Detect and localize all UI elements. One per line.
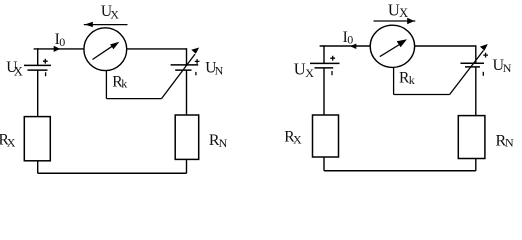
label RX (right circuit) bbox=[284, 128, 302, 146]
wire left vertical upper bbox=[37, 48, 39, 65]
label RN (right circuit) bbox=[496, 132, 515, 149]
svg-text:0: 0 bbox=[59, 35, 65, 49]
svg-text:k: k bbox=[121, 77, 127, 91]
wire right vertical lower bbox=[186, 70, 188, 115]
label UX (battery, left) bbox=[6, 59, 23, 79]
label UN (right circuit) bbox=[493, 57, 512, 75]
resistor RX2 bbox=[313, 115, 339, 157]
arrow UX direction (points left) bbox=[84, 22, 128, 27]
wire left vertical lower (right circuit) bbox=[323, 68, 325, 115]
svg-text:X: X bbox=[7, 135, 16, 149]
wire bottom rail bbox=[38, 172, 187, 174]
svg-text:X: X bbox=[14, 65, 23, 79]
svg-text:N: N bbox=[505, 135, 514, 149]
battery UN long plate bbox=[171, 64, 199, 66]
wire right vertical upper (right circuit) bbox=[475, 45, 477, 63]
battery UN2 minus tick bbox=[482, 72, 484, 76]
battery UX minus tick bbox=[45, 72, 47, 76]
wire bottom rail (right circuit) bbox=[324, 170, 476, 172]
battery UN2 short plate bbox=[465, 66, 480, 68]
svg-text:0: 0 bbox=[347, 33, 353, 47]
galvanometer G1 bbox=[84, 28, 127, 71]
label RN bbox=[209, 132, 228, 150]
battery UN2 long plate bbox=[461, 62, 485, 64]
svg-text:N: N bbox=[219, 136, 228, 150]
svg-text:N: N bbox=[215, 63, 224, 77]
svg-text:U: U bbox=[388, 1, 400, 20]
label UX (top, right circuit) bbox=[388, 1, 408, 20]
label I0 (right circuit) bbox=[343, 29, 354, 47]
galvanometer needle arrow bbox=[93, 42, 120, 60]
wire Rk horizontal (right circuit) bbox=[394, 94, 450, 96]
battery UX long plate + bbox=[24, 64, 51, 66]
label RX bbox=[0, 131, 16, 149]
wire left vertical upper (right circuit) bbox=[323, 45, 325, 63]
wire top-right segment (right circuit) bbox=[414, 45, 476, 47]
battery UN plus sign bbox=[195, 59, 200, 64]
arrow I0 (points right, on wire) bbox=[54, 46, 61, 52]
wire top-left segment bbox=[34, 48, 84, 50]
wire RX2 to bottom rail bbox=[323, 157, 325, 171]
battery UX2 plus sign bbox=[330, 56, 335, 61]
label UX (top, over galvanometer) bbox=[101, 3, 119, 22]
wiper arrow through UN source (right circuit) bbox=[450, 44, 488, 95]
wire top-left segment (right circuit) bbox=[320, 45, 370, 47]
battery UN short plate bbox=[175, 69, 191, 71]
svg-text:X: X bbox=[399, 6, 408, 20]
battery UX plus sign bbox=[43, 59, 48, 64]
wire galvanometer to Rk bbox=[105, 71, 107, 99]
wire top-right segment bbox=[127, 48, 187, 50]
label UN bbox=[205, 59, 223, 77]
svg-text:X: X bbox=[305, 66, 314, 80]
label Rk bbox=[112, 73, 127, 90]
label I0 bbox=[55, 31, 66, 49]
battery UN minus tick bbox=[195, 72, 197, 75]
wire RX to bottom rail bbox=[37, 161, 39, 174]
resistor RN bbox=[175, 115, 199, 159]
label UX (battery, right circuit) bbox=[294, 60, 315, 80]
wire RN2 to bottom rail bbox=[475, 159, 477, 171]
battery UX2 minus tick bbox=[331, 71, 333, 75]
svg-text:k: k bbox=[409, 73, 415, 87]
wiper arrow through UN source bbox=[162, 48, 200, 99]
battery UX2 long plate bbox=[310, 62, 340, 64]
svg-text:U: U bbox=[294, 60, 306, 79]
wire right vertical upper bbox=[186, 48, 188, 65]
resistor RX bbox=[24, 117, 50, 161]
label Rk (right circuit) bbox=[399, 69, 415, 87]
wire RN to bottom rail bbox=[186, 159, 188, 173]
wire galvanometer to Rk (right circuit) bbox=[393, 67, 395, 94]
galvanometer G2 circle bbox=[370, 25, 414, 67]
svg-text:X: X bbox=[293, 133, 302, 147]
arrow I0 (points left, on wire) bbox=[350, 44, 356, 50]
battery UN2 plus sign bbox=[483, 53, 488, 58]
wire left vertical lower bbox=[37, 70, 39, 117]
svg-text:N: N bbox=[503, 61, 512, 75]
resistor RN2 bbox=[458, 116, 485, 159]
arrow UX direction (points right) bbox=[374, 18, 416, 25]
battery UX short plate - bbox=[28, 69, 48, 71]
svg-text:X: X bbox=[110, 8, 119, 22]
galvanometer needle arrow (right) bbox=[380, 39, 407, 56]
wire right vertical lower (right circuit) bbox=[475, 67, 477, 116]
battery UX2 short plate bbox=[315, 67, 334, 69]
wire Rk horizontal bbox=[106, 98, 161, 100]
